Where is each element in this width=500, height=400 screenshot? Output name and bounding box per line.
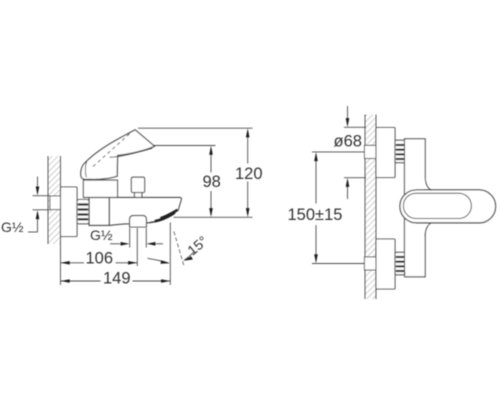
svg-text:120: 120 xyxy=(235,165,263,183)
svg-text:G½: G½ xyxy=(90,227,113,243)
svg-text:G½: G½ xyxy=(1,219,24,235)
svg-text:ø68: ø68 xyxy=(334,132,362,150)
svg-text:98: 98 xyxy=(203,173,221,191)
svg-text:106: 106 xyxy=(86,250,114,268)
svg-text:150±15: 150±15 xyxy=(288,206,343,224)
svg-text:149: 149 xyxy=(103,270,131,288)
